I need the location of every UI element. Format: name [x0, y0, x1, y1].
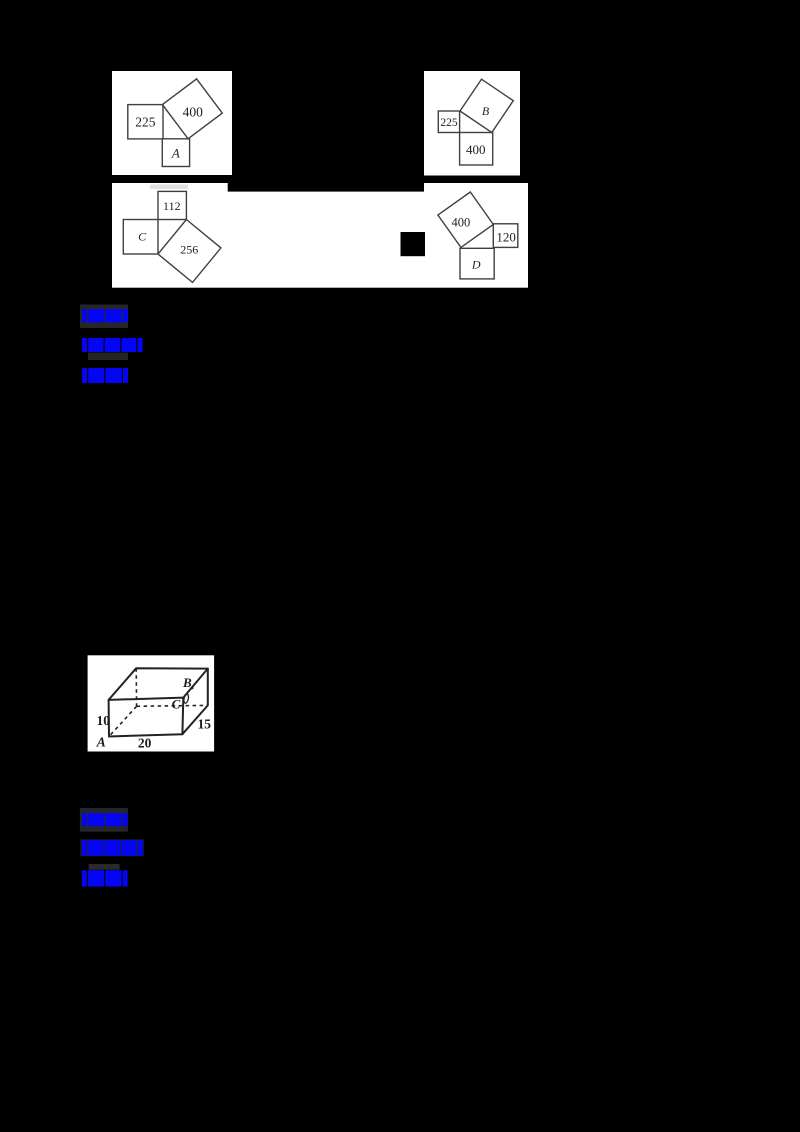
square A (fig A) — [162, 139, 189, 167]
panel: figure B (white) — [424, 71, 520, 176]
panel: row band with figures C and D (white) — [112, 183, 528, 288]
square 112 (fig C) — [158, 191, 186, 219]
tilted square 400 (fig A) — [162, 79, 222, 139]
figure B group — [438, 79, 513, 165]
black square artifact (left of fig D) — [401, 232, 426, 256]
svg-text:D: D — [471, 257, 481, 271]
svg-text:400: 400 — [183, 105, 204, 120]
panel: cuboid figure (white) — [88, 655, 215, 751]
svg-text:C: C — [138, 230, 147, 244]
blue label item 1 (set 1) — [82, 309, 128, 323]
cuboid solid edges — [109, 668, 208, 736]
figure D group — [438, 192, 518, 279]
blue label item 4 (set 2) — [82, 813, 128, 826]
gray remnant below blue item 2 — [88, 353, 128, 361]
dot after B — [191, 686, 194, 689]
gray remnant above blue item 6 — [89, 864, 120, 870]
gray backing behind blue item 1 — [80, 305, 128, 329]
svg-text:A: A — [171, 146, 180, 161]
front face — [109, 698, 184, 737]
square D (fig D) — [460, 248, 494, 279]
top face — [109, 668, 208, 700]
square 120 (fig D) — [493, 224, 518, 248]
svg-text:A: A — [96, 735, 106, 750]
svg-text:400: 400 — [452, 215, 471, 229]
square 225 (fig A) — [128, 105, 163, 139]
square 400 (fig B) — [460, 133, 493, 166]
svg-text:112: 112 — [163, 199, 181, 213]
blue label item 5 (set 2) — [82, 840, 143, 856]
gray smudge above square 112 — [150, 185, 188, 190]
gray backing behind blue item 5 — [80, 839, 143, 856]
svg-text:B: B — [482, 104, 490, 118]
square 225 (fig B) — [438, 111, 459, 133]
hidden diagonal edge to A — [109, 706, 137, 736]
svg-text:15: 15 — [197, 717, 211, 732]
blue label item 3 (set 1) — [82, 368, 128, 383]
square C (fig C) — [123, 220, 158, 255]
tilted square B (fig B) — [460, 79, 513, 132]
small oval mark near C — [183, 694, 189, 704]
svg-text:B: B — [182, 675, 192, 690]
figure C group — [123, 191, 221, 282]
tilted square 400 (fig D) — [438, 192, 493, 247]
blue label item 2 (set 1) — [82, 338, 143, 352]
gray backing behind blue item 4 — [80, 808, 128, 832]
panel: figure A (white) — [112, 71, 232, 175]
svg-text:400: 400 — [466, 142, 486, 157]
svg-text:20: 20 — [138, 736, 152, 751]
tilted square 256 (fig C) — [158, 220, 221, 283]
cuboid hidden dashed edges — [109, 668, 208, 736]
svg-text:225: 225 — [440, 117, 458, 129]
hidden horizontal edge — [137, 704, 208, 707]
svg-text:C: C — [172, 696, 181, 711]
svg-text:225: 225 — [135, 115, 156, 130]
blue label item 6 (set 2) — [82, 870, 128, 886]
svg-text:10: 10 — [96, 713, 110, 728]
hidden vertical edge — [135, 668, 137, 706]
svg-text:120: 120 — [496, 229, 516, 244]
black notch at top of band — [228, 183, 424, 192]
figure A group — [128, 79, 223, 167]
right face — [182, 669, 207, 735]
svg-text:256: 256 — [180, 243, 198, 257]
